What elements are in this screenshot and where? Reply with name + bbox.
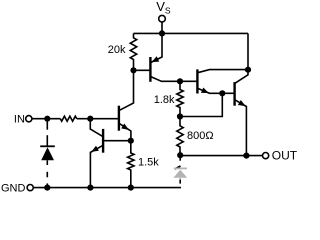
diode D2 gray stub below bbox=[179, 178, 181, 180]
transistor Q5 (PNP) bar bbox=[149, 57, 151, 82]
Q1 collector wire to node D bbox=[103, 140, 131, 142]
wire GND rail bbox=[33, 187, 181, 189]
Q5 emitter (to rail) with arrow bbox=[151, 33, 162, 62]
svg-text:800Ω: 800Ω bbox=[187, 130, 214, 142]
resistor 1.5k bbox=[128, 141, 134, 188]
wire Q4 base bbox=[222, 92, 234, 94]
Q1 emitter with arrow down to GND bbox=[90, 146, 102, 188]
diode D2 black dash top bbox=[179, 157, 181, 161]
wire IN node down to Q1 base bbox=[90, 119, 103, 137]
Q5 collector bbox=[151, 77, 198, 82]
Q2 emitter with arrow bbox=[119, 124, 130, 141]
resistor 20k bbox=[130, 33, 136, 70]
svg-text:1.5k: 1.5k bbox=[138, 156, 159, 168]
node Q4 base bbox=[219, 90, 225, 96]
node OUT junction bbox=[243, 153, 249, 159]
node A (20k bottom) bbox=[130, 67, 136, 73]
Q3 collector to right node bbox=[198, 70, 248, 73]
terminal GND bbox=[27, 185, 33, 191]
node C (800 bottom / LED top) bbox=[177, 152, 183, 158]
transistor Q3 (NPN) bar bbox=[196, 69, 198, 93]
diode D1 dashed lead top bbox=[46, 121, 48, 130]
wire top supply rail bbox=[134, 32, 249, 34]
resistor input series (unlabeled) bbox=[60, 116, 76, 121]
node GND-1.5k bbox=[128, 185, 134, 191]
node 1.8k top bbox=[177, 78, 183, 84]
transistor Q4 (NPN) bar bbox=[233, 82, 235, 106]
Q4 collector bbox=[235, 70, 248, 84]
terminal IN bbox=[26, 116, 32, 122]
svg-text:20k: 20k bbox=[108, 44, 126, 56]
diode D2 gray triangle bbox=[173, 170, 187, 178]
node GND-Q1 emitter bbox=[87, 185, 93, 191]
transistor Q2 (NPN) bar bbox=[118, 106, 120, 131]
Q4 emitter with arrow down to OUT bbox=[235, 100, 246, 156]
wire node B to Q4 base node bbox=[180, 93, 222, 116]
wire resistor to Q2 base bbox=[77, 118, 119, 120]
svg-text:GND: GND bbox=[1, 182, 26, 194]
diode D2 gray bar bbox=[174, 167, 187, 169]
svg-text:IN: IN bbox=[14, 114, 25, 126]
diode D1 triangle bbox=[41, 147, 54, 160]
wire node A down to Q2 collector bbox=[119, 70, 133, 110]
svg-text:OUT: OUT bbox=[272, 148, 298, 162]
node right top (collectors) bbox=[245, 67, 251, 73]
wire IN to resistor bbox=[32, 118, 60, 120]
wire right vertical from rail bbox=[247, 33, 249, 69]
node B (1.8k bottom) bbox=[177, 113, 183, 119]
node diode top bbox=[44, 116, 50, 122]
diode D2 black dash bottom bbox=[179, 180, 181, 184]
wire VS stem bbox=[161, 22, 163, 34]
diode D2 black tick bbox=[175, 166, 181, 169]
node VS-rail junction bbox=[159, 30, 165, 36]
node D (Q2 emitter / Q1 collector / 1.5k) bbox=[128, 138, 134, 144]
diode D1 cathode bar bbox=[40, 145, 55, 147]
diode D1 dashed lead bottom bbox=[46, 160, 48, 165]
node Q1 base branch bbox=[87, 116, 93, 122]
transistor Q1 (NPN) bar bbox=[102, 129, 104, 153]
resistor 800ohm bbox=[177, 117, 183, 156]
terminal OUT bbox=[263, 153, 269, 159]
terminal VS bbox=[159, 15, 166, 22]
resistor 1.8k bbox=[177, 81, 183, 116]
svg-text:1.8k: 1.8k bbox=[154, 94, 175, 106]
Q3 emitter with arrow bbox=[198, 88, 223, 93]
wire node A to Q5 base bbox=[134, 69, 151, 71]
wire OUT row bbox=[180, 155, 262, 157]
svg-text:VS: VS bbox=[156, 0, 171, 16]
node GND-diode bbox=[44, 185, 50, 191]
